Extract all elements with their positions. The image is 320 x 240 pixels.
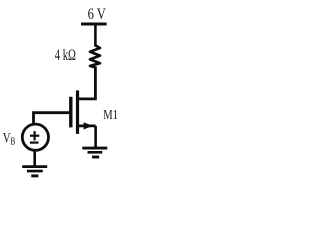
- svg-text:M1: M1: [103, 107, 117, 123]
- mosfet M1 gate bar: [69, 97, 72, 128]
- svg-text:6 V: 6 V: [88, 7, 106, 23]
- minus sign inside VB source: [30, 142, 39, 144]
- wire resistor to drain corner: [78, 67, 96, 99]
- wire gate lead from VB source: [34, 113, 71, 125]
- voltage source VB circle: [22, 124, 48, 150]
- wire source to ground: [94, 126, 97, 147]
- svg-text:VB: VB: [3, 129, 16, 147]
- mosfet source wire with arrow: [77, 125, 95, 128]
- ground symbol at mosfet source: [82, 147, 107, 150]
- ground symbol below VB source: [22, 165, 47, 168]
- resistor 4 kOhm zigzag: [90, 45, 100, 67]
- power supply rail bar: [81, 23, 107, 26]
- plus sign inside VB source: [30, 135, 39, 137]
- wire VB source to ground: [33, 150, 36, 166]
- mosfet M1 channel bar: [76, 90, 79, 133]
- svg-text:4 kΩ: 4 kΩ: [55, 46, 76, 64]
- wire supply bar to resistor: [94, 25, 97, 46]
- mosfet source arrowhead: [84, 122, 93, 129]
